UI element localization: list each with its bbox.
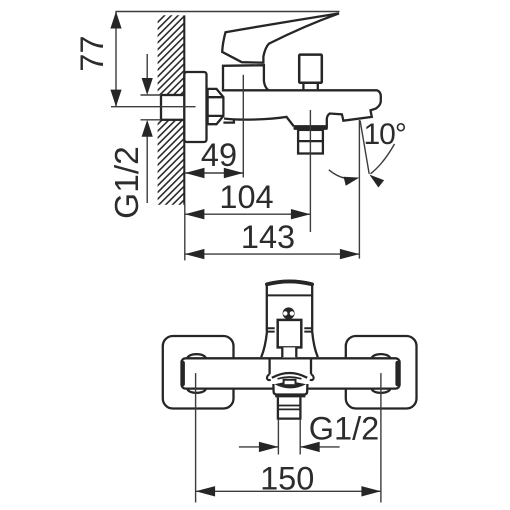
- inlet fitting: [161, 95, 185, 120]
- svg-text:G1/2: G1/2: [109, 146, 146, 219]
- handle column sides: [267, 284, 312, 332]
- temp indicator: [283, 307, 295, 319]
- svg-text:143: 143: [241, 219, 295, 255]
- svg-text:150: 150: [260, 461, 314, 497]
- body bar: [182, 358, 400, 388]
- top extension line: [116, 11, 340, 13]
- svg-text:104: 104: [219, 179, 273, 215]
- bar right cap: [395, 363, 399, 384]
- left union nut top arc: [187, 354, 206, 359]
- right union nut top arc: [371, 354, 390, 359]
- diverter stem: [303, 83, 317, 90]
- 150 dim line: [196, 490, 381, 492]
- right union nut bottom arc: [371, 388, 390, 393]
- G1/2 dim line: [239, 446, 340, 448]
- diverter stem front: [282, 347, 296, 357]
- faucet body outline: [224, 90, 381, 126]
- left escutcheon front: [163, 336, 234, 409]
- spout housing sides: [270, 359, 311, 374]
- aerator ring white: [273, 384, 307, 395]
- pipe ext lines: [278, 419, 300, 455]
- svg-text:G1/2: G1/2: [309, 411, 379, 447]
- tab: [284, 380, 296, 384]
- right escutcheon front: [346, 336, 417, 409]
- G1/2 dim arrow top: [146, 54, 148, 81]
- 150 ext lines: [196, 373, 381, 502]
- collar flares: [261, 332, 318, 358]
- svg-text:10°: 10°: [364, 118, 406, 151]
- outlet pipe: [278, 397, 301, 418]
- dark crescent: [275, 382, 307, 388]
- svg-text:49: 49: [201, 137, 237, 173]
- line under cap: [267, 294, 312, 296]
- cup rim arc: [272, 373, 307, 378]
- wall escutcheon side: [184, 72, 206, 142]
- inlet centerline: [111, 106, 196, 108]
- body bottom line: [224, 117, 294, 126]
- angle arc right: [371, 144, 395, 174]
- wall ext line below: [184, 204, 186, 260]
- diverter knob: [299, 55, 322, 83]
- handle lever: [222, 13, 339, 62]
- left union nut bottom arc: [187, 388, 206, 393]
- spout axis ext line: [358, 120, 360, 259]
- boss fill: [223, 90, 234, 122]
- 104 dim line: [185, 213, 311, 215]
- shower flange: [294, 126, 328, 130]
- fitting extension lines: [141, 95, 162, 120]
- 77 dim line: [115, 12, 117, 107]
- dark band2: [275, 394, 305, 397]
- diverter square front: [278, 320, 302, 348]
- angle arc left: [329, 170, 358, 179]
- wall hatching: [150, 0, 196, 418]
- 10 deg tilted ray: [360, 121, 369, 174]
- shower port axis ext line: [309, 110, 311, 232]
- shower outlet port: [298, 130, 323, 154]
- cup inner arc: [278, 377, 302, 379]
- handle cap: [267, 281, 312, 284]
- bar left cap: [181, 363, 185, 384]
- step ticks: [267, 328, 312, 331]
- wall face: [183, 15, 185, 204]
- spout ears: [267, 374, 314, 380]
- G1/2 dim arrow bottom: [146, 135, 148, 203]
- cartridge housing: [223, 65, 269, 90]
- faucet body fill: [225, 90, 381, 126]
- connection nut: [208, 89, 224, 124]
- svg-text:77: 77: [74, 35, 110, 71]
- cartridge axis ext line: [242, 75, 244, 178]
- 49 dim line: [185, 172, 243, 174]
- 143 dim line: [185, 253, 360, 255]
